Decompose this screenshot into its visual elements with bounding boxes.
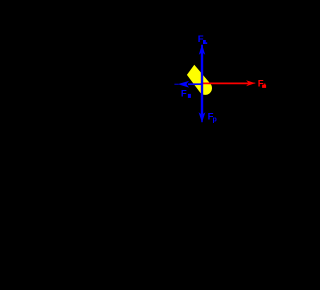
force Fs arrow tip line: [174, 83, 178, 85]
force Fa shaft (red, right): [202, 82, 249, 84]
label Fs subscript s: [188, 94, 191, 98]
svg-text:F: F: [181, 88, 187, 99]
force Fs shaft (blue, left): [188, 83, 203, 85]
force FR shaft (blue, vertical): [201, 52, 203, 115]
force Fa arrowhead: [246, 80, 255, 86]
svg-text:F: F: [198, 34, 204, 45]
force Fs arrowhead: [178, 81, 189, 88]
label Fa subscript a: [262, 85, 266, 88]
force FP arrowhead (down): [199, 112, 206, 122]
body (yellow capsule mass): [187, 65, 212, 95]
force Fa arrow tip line: [252, 82, 256, 84]
force FP arrow tip line: [201, 118, 203, 122]
force FR arrowhead (up): [199, 44, 205, 54]
label FR subscript R: [203, 40, 206, 44]
force FR arrow tip line: [201, 45, 203, 50]
svg-text:p: p: [213, 116, 217, 123]
